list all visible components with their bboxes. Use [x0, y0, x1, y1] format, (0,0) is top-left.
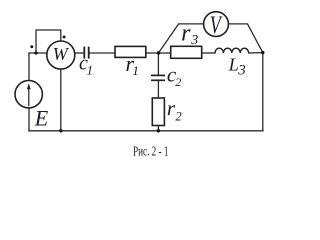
wire voltmeter to node B diagonal [228, 24, 262, 53]
polarity dot left of wattmeter [30, 45, 33, 48]
svg-text:2: 2 [175, 110, 181, 124]
voltmeter V [204, 11, 229, 39]
svg-text:r: r [181, 21, 191, 47]
node A [157, 51, 160, 54]
label c2 [167, 62, 181, 89]
svg-text:1: 1 [132, 63, 139, 78]
wire bottom [29, 130, 263, 132]
inductor L3 [215, 48, 249, 53]
label c1 [79, 53, 93, 78]
wire r3 to L3 [202, 52, 215, 54]
wire L3 to node B [249, 52, 263, 54]
capacitor C2 [151, 75, 165, 80]
label r2 [167, 96, 182, 123]
source E [15, 81, 49, 131]
capacitor C1 [84, 47, 88, 59]
wire W to c1 [75, 52, 84, 54]
wire node A down to c2 [157, 53, 159, 75]
wire top-left horizontal [29, 52, 47, 54]
svg-text:3: 3 [237, 63, 246, 79]
wattmeter W [47, 41, 75, 69]
wire r1 to node A [146, 52, 159, 54]
label r1 [126, 51, 139, 78]
wire wattmeter bottom to bottom rail [60, 69, 62, 131]
resistor R3 [171, 46, 202, 58]
wire node A diagonal up to voltmeter [159, 24, 204, 53]
junction bottom under W [59, 129, 62, 132]
svg-text:1: 1 [87, 63, 94, 78]
svg-text:W: W [53, 44, 70, 64]
svg-text:3: 3 [190, 33, 198, 48]
polarity dot above wattmeter [63, 35, 66, 38]
node B [261, 51, 264, 54]
wire wattmeter voltage-coil loop [36, 30, 61, 53]
resistor R1 [115, 46, 146, 57]
svg-text:2: 2 [175, 75, 181, 89]
svg-text:E: E [34, 106, 49, 131]
svg-text:Рис. 2 - 1: Рис. 2 - 1 [133, 144, 169, 159]
label L3 [228, 54, 246, 78]
resistor R2 [152, 98, 164, 126]
junction node at wattmeter tap [34, 51, 37, 54]
wire c1 to r1 [89, 52, 115, 54]
label r3 [181, 21, 198, 49]
wire left vertical [28, 53, 30, 131]
wire right vertical [262, 53, 264, 131]
wire r2 to bottom rail [157, 126, 159, 131]
svg-text:L: L [228, 54, 239, 74]
wire node A to r3 [159, 52, 171, 54]
junction bottom under r2 [157, 129, 160, 132]
wire c2 to r2 [157, 81, 159, 98]
